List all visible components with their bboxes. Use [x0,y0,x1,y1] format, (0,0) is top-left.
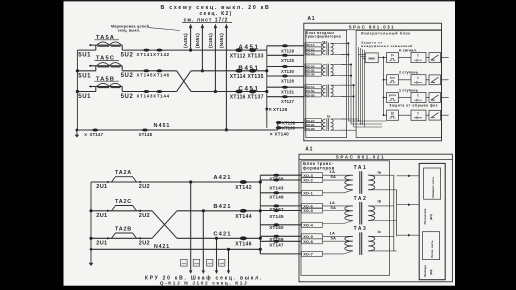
cable marking box [206,259,213,266]
svg-text:2U1: 2U1 [96,240,107,246]
output stub to box edge [441,114,449,116]
secondary output wires [331,42,346,44]
svg-text:5U1: 5U1 [78,73,91,79]
stub wire ХТ139 to box [278,127,304,129]
svg-text:5U2: 5U2 [121,94,134,100]
wire from ТА5С to terminals [122,70,176,72]
svg-text:ХТ112 ХТ133: ХТ112 ХТ133 [230,53,264,59]
terminal dot ХТ144 [240,209,247,213]
terminal box ХО-5А [305,85,321,89]
svg-text:(ВЧ): (ВЧ) [429,214,433,220]
svg-text:(С451): (С451) [208,33,214,48]
svg-text:ХТ144: ХТ144 [235,214,252,220]
svg-text:трансформаторов: трансформаторов [306,34,341,38]
svg-text:2 ступень: 2 ступень [399,71,419,75]
stub wire to box terminal, ХТ126 [267,75,304,77]
terminal dots before box on А451 [235,48,242,52]
svg-text:5U2: 5U2 [121,53,134,59]
svg-text:ТА2С: ТА2С [115,199,132,205]
terminal box ХО-5В [305,93,321,97]
svg-text:(А451): (А451) [183,33,189,48]
svg-text:N421: N421 [154,244,170,250]
terminal dot on ТА5В primary [90,86,92,88]
stub wire into lower box ХТ150 [260,224,301,226]
svg-text:5А: 5А [331,174,337,179]
input transformer primary winding [322,119,325,130]
time element t [411,110,426,120]
wire B421 after crossing [177,210,260,212]
wire from ТА5В to terminals [122,91,176,93]
input transformer core [326,64,328,77]
svg-text:ХТ141ХТ142: ХТ141ХТ142 [137,52,170,57]
svg-text:ХО-2: ХО-2 [303,178,313,183]
wire jog left of ТА5В [95,87,97,92]
link to time element [384,97,387,99]
terminal box ХО-2А [305,119,321,123]
output contact element [429,110,441,120]
wire jog left of ТА5С [95,66,97,71]
svg-text:Измерит. часть: Измерит. часть [431,176,435,197]
wire N421 [91,248,260,250]
svg-text:✕: ✕ [268,107,272,112]
output stub to box edge [441,57,449,59]
cable marking box [218,259,225,266]
svg-text:ХТ143: ХТ143 [269,185,284,190]
svg-text:ХО-2В: ХО-2В [306,127,315,131]
current transformer ТА2А winding hump [112,177,137,182]
threshold element І&gt;&gt; [387,75,399,85]
link to output contact [426,57,429,59]
polarity arrows of ТА2В [107,237,110,240]
output stub to box edge [441,79,449,81]
stub wire ХТ138 to box [278,122,304,124]
svg-text:секц. К2): секц. К2) [199,11,232,17]
svg-text:Логическая: Логическая [423,208,427,224]
wire from bus to ТА5С [77,70,95,72]
current transformer ТА5В core lines [98,87,109,89]
underline of see-sheet reference [182,22,232,24]
svg-text:ХТ128: ХТ128 [273,107,288,112]
svg-text:ХТ150: ХТ150 [269,225,284,230]
svg-text:ТА3: ТА3 [354,226,368,232]
terminal box ХО-3Б [305,68,321,72]
current transformer ТА2В winding hump [112,233,137,238]
time element t [411,92,426,102]
svg-text:ХТ140: ХТ140 [275,131,290,136]
measuring/logic tall box outline [419,163,445,279]
svg-text:5U1: 5U1 [78,53,91,59]
svg-text:ХТ131: ХТ131 [281,90,295,95]
stub wire to box terminal, ХТ127 [267,96,304,98]
terminal box ХО-4 [302,222,323,227]
transformer ТА2 core [359,202,361,225]
terminal box ХО-1 [302,190,323,195]
cable marking box [181,259,188,266]
svg-text:2U2: 2U2 [139,184,150,190]
title separator rule (lower) [299,159,452,161]
svg-text:ХО-3В: ХО-3В [306,73,315,77]
wire from bus to ТА5В [77,91,95,93]
secondary output wires [331,118,346,120]
bundle taps from secondaries [342,42,349,44]
svg-text:ХТ129: ХТ129 [281,48,295,53]
time element t [411,52,426,62]
svg-text:Измерительный блок: Измерительный блок [361,32,411,36]
wire row of ТА2В [91,237,152,239]
element MAX selector [365,53,378,63]
input transformer secondary winding [331,65,334,76]
stub wire into lower box ХТ157 [260,205,301,207]
svg-text:Іс: Іс [378,229,382,234]
transformer ТА3 core [359,232,361,255]
transformer ТА1 secondary winding [368,175,375,190]
bus junction row3 [76,90,79,93]
wire down to switchgear cabinet #1 [190,182,192,271]
junction of tag С451) line with horizontal wire [214,90,217,93]
threshold element І&gt;&gt;&gt; [387,92,399,102]
terminal ХТ144 dot [156,90,162,93]
svg-text:ХТ139: ХТ139 [282,126,296,131]
wire from ТА5А to terminals [122,49,267,51]
lower wire crossing transposition [152,211,177,239]
input transformer primary winding [322,43,325,54]
title separator rule [304,29,442,31]
N421 jog into ХО-7 [259,249,261,254]
current transformer ТА5В secondary winding arcs [97,83,122,86]
transformer ТА1 primary winding [345,175,353,190]
terminal box ХО-3В [305,72,321,76]
svg-text:ХТ126: ХТ126 [281,79,295,84]
wire row of ТА2А [91,181,260,183]
wire tag N451) with up arrow to section breaker circuit [225,27,227,130]
collector vertical to neutral / box stubs [266,46,268,128]
svg-text:А1: А1 [305,146,313,152]
svg-text:ХО-1В: ХО-1В [306,51,315,55]
svg-text:ХТ116 ХТ137: ХТ116 ХТ137 [230,95,264,101]
wire down to switchgear cabinet #2 [202,211,204,271]
terminal dots before box on В451 [235,69,242,73]
time element t [411,75,426,85]
threshold element І2 [387,110,399,120]
current transformer ТА2С winding hump [112,206,137,211]
wire B451 after crossing [191,70,267,72]
terminal box ХО-2Б [305,123,321,127]
link to time element [384,114,387,116]
current transformer ТА5С secondary winding arcs [97,63,122,66]
ТА2 primary taps to terminals [323,205,353,207]
svg-text:Выходн.: Выходн. [423,264,427,276]
link from N451 up to stub wires [277,123,279,131]
svg-text:ТА2А: ТА2А [115,170,132,176]
ground arrow at bus bottom [76,130,78,135]
stub wire to box terminal, ХТ131 [267,86,304,88]
ТА1 primary taps to terminals [323,174,353,176]
svg-text:ХО-1: ХО-1 [303,190,313,195]
terminal dots before box on С451 [235,90,242,94]
bus junction N451 [76,129,79,132]
terminal dot ХТ142 [240,180,247,184]
svg-text:(N451): (N451) [219,33,225,48]
polarity arrows of ТА2С [107,210,110,213]
link to output contact [426,114,429,116]
svg-text:ХТ145: ХТ145 [269,214,284,219]
stub wire into lower box [260,253,301,255]
terminal ХТ141 dot [143,49,149,52]
wire C421 after crossing [177,237,260,239]
secondary output wires [331,64,346,66]
svg-text:Іb: Іb [378,198,382,203]
terminal dot on ТА5А primary [90,44,92,46]
svg-text:І2: І2 [391,111,394,115]
svg-text:5U2: 5U2 [121,73,134,79]
lower ground arrow [90,249,92,263]
wire row of ТА2С [91,210,152,212]
current transformer ТА5А core lines [98,45,109,47]
svg-text:5А: 5А [331,235,337,240]
svg-text:(0Н): (0Н) [429,269,433,275]
svg-text:Q-К1Ј N Ј102 секц. К1Ј: Q-К1Ј N Ј102 секц. К1Ј [160,280,249,286]
svg-text:ТА1: ТА1 [354,165,368,171]
svg-text:В421: В421 [213,204,231,210]
input transformer core [326,43,328,56]
stub wire to box terminal, ХТ130 [267,66,304,68]
input transformer secondary winding [331,43,334,54]
inner block: measuring part [424,168,441,199]
polarity arrows of ТА2А [107,181,110,184]
feed vertical to stages [383,56,385,115]
wire C451 after crossing [191,91,267,93]
wire: elevated primary run of ТА5А [89,44,122,46]
terminal ХТ143 dot [143,90,149,93]
svg-text:2U2: 2U2 [139,213,150,219]
terminal box ХО-6 [302,203,323,208]
transformer ТА2 primary winding [345,206,353,221]
current transformer ТА5С core lines [98,66,109,68]
svg-text:2U1: 2U1 [96,213,107,219]
wire jog right of ТА5В [121,87,123,92]
svg-text:ХТ130: ХТ130 [281,69,295,74]
svg-text:5А: 5А [331,205,337,210]
transformer ТА1 core [359,171,361,194]
svg-text:секц. выкл.: секц. выкл. [118,28,141,32]
terminal box ХО-7 [302,251,323,256]
output contact element [429,75,441,85]
transformer ТА3 secondary winding [368,236,375,251]
dark scan line along top edge [64,0,456,1]
wire down to switchgear cabinet #4 [228,249,230,270]
wire down to switchgear cabinet #3 [216,238,218,270]
stub wire into lower box ХТ143 [260,179,301,181]
terminal box ХО-1Б [305,47,321,51]
svg-text:ХТ143ХТ144: ХТ143ХТ144 [137,93,170,98]
input transformer core [326,84,328,97]
svg-text:ХТ142: ХТ142 [235,185,252,191]
inner block: logic part [423,232,440,260]
stub wire to box terminal, ХТ125 [267,54,304,56]
terminal ХТ146 dot [156,69,162,72]
wire jog right of ТА5С [121,66,123,71]
svg-text:ХТ147: ХТ147 [269,243,284,248]
terminal ХТ145 dot [143,69,149,72]
svg-text:Іа: Іа [378,169,382,174]
svg-text:ХО-5В: ХО-5В [306,93,315,97]
svg-text:ХТ125: ХТ125 [281,58,295,63]
svg-text:ХТ149: ХТ149 [269,194,284,199]
input transformer primary winding [322,65,325,76]
svg-text:В схему секц. выкл. 20 кВ: В схему секц. выкл. 20 кВ [161,5,271,11]
wire jog right of ТА5А [121,45,123,50]
svg-text:N451: N451 [154,123,171,129]
stub wire into lower box ХТ145 [260,210,301,212]
wire jog left of ТА5А [95,45,97,50]
svg-text:ХТ147: ХТ147 [90,132,104,137]
secondary risers in gap [393,175,395,251]
svg-text:ХТ148: ХТ148 [139,132,153,137]
svg-text:5U1: 5U1 [78,94,91,100]
svg-text:ТА2: ТА2 [354,196,368,202]
svg-text:І>>: І>> [390,76,395,80]
input transformer block outline [306,30,347,137]
input transformer secondary winding [331,85,334,96]
svg-text:ХТ146: ХТ146 [235,241,252,247]
terminal box ХО-5Б [305,89,321,93]
transformer ТА3 primary winding [345,236,353,251]
wire tag А451) with up arrow to section breaker circuit [190,27,192,51]
wire tag В451) with up arrow to section breaker circuit [201,27,203,71]
lower collector vertical [259,175,261,254]
wire tag С451) with up arrow to section breaker circuit [214,27,216,92]
svg-text:А421: А421 [213,175,231,181]
stub wire into lower box ХТ158 [260,235,301,237]
terminal ХТ148 dot [142,129,148,132]
svg-text:ХТ114 ХТ135: ХТ114 ХТ135 [230,74,264,80]
device A1 outline (lower relay SPAC 801.021) [299,154,452,282]
svg-text:2U1: 2U1 [96,184,107,190]
measuring block outline [356,30,441,137]
wire: elevated primary run of ТА5С [89,65,122,67]
transformer block outline (lower) [301,161,390,275]
top taps into MAX element [359,54,366,56]
stub wire into lower box ХТ147 [260,240,301,242]
bus junction row2 [76,69,79,72]
transformer ТА2 secondary winding [368,206,375,221]
svg-text:SPAC 801.021: SPAC 801.021 [336,155,386,160]
svg-text:А1: А1 [307,16,315,22]
svg-text:І>: І> [391,54,394,58]
current signal Іс into logic box [397,234,420,236]
junction of tag В451) line with horizontal wire [201,69,204,72]
junction of tag А451) line with horizontal wire [189,49,192,52]
terminal box ХО-2 [302,178,323,183]
terminal ХТ142 dot [156,49,162,52]
wire from bus to ТА5А [77,49,95,51]
ТА1 secondary outputs [368,174,394,176]
stub wire into lower box ХТ149 [260,192,301,194]
svg-text:ХТ145ХТ146: ХТ145ХТ146 [137,73,170,78]
svg-text:✕: ✕ [270,131,274,136]
ТА2 secondary outputs [368,205,394,207]
current transformer ТА5А secondary winding arcs [97,42,122,45]
secondary output wires [331,84,346,86]
input transformer core [326,118,328,131]
left vertical bus of CT star point [76,50,78,130]
bundle verticals inside measuring block [358,47,360,121]
wire crossing: row2-row3 transposition [177,71,191,92]
stub wire to box terminal, ХТ129 [267,45,304,47]
leader line from marking label to cable tags [149,28,181,31]
signal bundle verticals to measuring block [347,43,349,121]
terminal box ХО-1А [305,43,321,47]
svg-text:ХО-5: ХО-5 [303,208,313,213]
terminal box ХО-1В [305,51,321,55]
output stub to box edge [441,97,449,99]
svg-text:Защита от обрыва фаз: Защита от обрыва фаз [389,104,438,108]
svg-text:✕: ✕ [84,132,87,137]
wire N451 [77,129,278,131]
svg-text:ХО-4: ХО-4 [303,222,313,227]
link to output contact [426,97,429,99]
terminal box ХО-8 [302,239,323,244]
stub wire into lower box ХТ156 [260,174,301,176]
current signal Іа into logic box [397,175,420,177]
svg-text:К сигнал.: К сигнал. [399,48,417,52]
terminal box ХО-3А [305,64,321,68]
svg-text:ХТ127: ХТ127 [281,99,295,104]
output contact element [429,93,441,103]
threshold element І&gt; [387,52,399,62]
test point ХТ128 dot on collector [265,108,268,111]
svg-text:2U2: 2U2 [139,240,150,246]
link to time element [384,79,387,81]
svg-text:мах: мах [368,57,375,61]
svg-text:(В451): (В451) [195,33,201,48]
link to output contact [426,79,429,81]
output contact element [429,53,441,63]
terminal box ХО-5 [302,208,323,213]
terminal box ХО-9 [302,234,323,239]
junction of tag N451) line with horizontal wire [225,128,228,131]
svg-text:1 ступень: 1 ступень [399,88,419,92]
terminal box ХО-2В [305,127,321,131]
terminal dot on ТА5С primary [90,65,92,67]
cable marking box [193,259,200,266]
svg-text:ХО-8: ХО-8 [303,239,313,244]
white paper area [64,0,456,286]
ТА3 primary taps to terminals [323,235,353,237]
current signal Іb into logic box [397,204,420,206]
svg-text:Логич. часть: Логич. часть [430,240,434,258]
input transformer primary winding [322,85,325,96]
wire: elevated primary run of ТА5В [89,86,122,88]
bundle bottom taps [348,120,386,122]
link to time element [384,57,387,59]
device A1 outline (upper relay SPAC 801.031) [304,23,442,141]
lower left vertical bus [90,182,92,249]
input transformer secondary winding [331,119,334,130]
svg-text:SPAC 801.031: SPAC 801.031 [349,25,395,30]
svg-text:ХО-7: ХО-7 [303,252,313,257]
terminal ХТ147 dot [92,129,98,132]
terminal box ХО-3 [302,173,323,178]
svg-text:С421: С421 [213,231,231,237]
terminal dot ХТ146 [240,236,247,240]
svg-text:ТА2В: ТА2В [115,227,132,233]
ТА3 secondary outputs [368,235,394,237]
svg-text:І>>>: І>>> [389,94,396,98]
